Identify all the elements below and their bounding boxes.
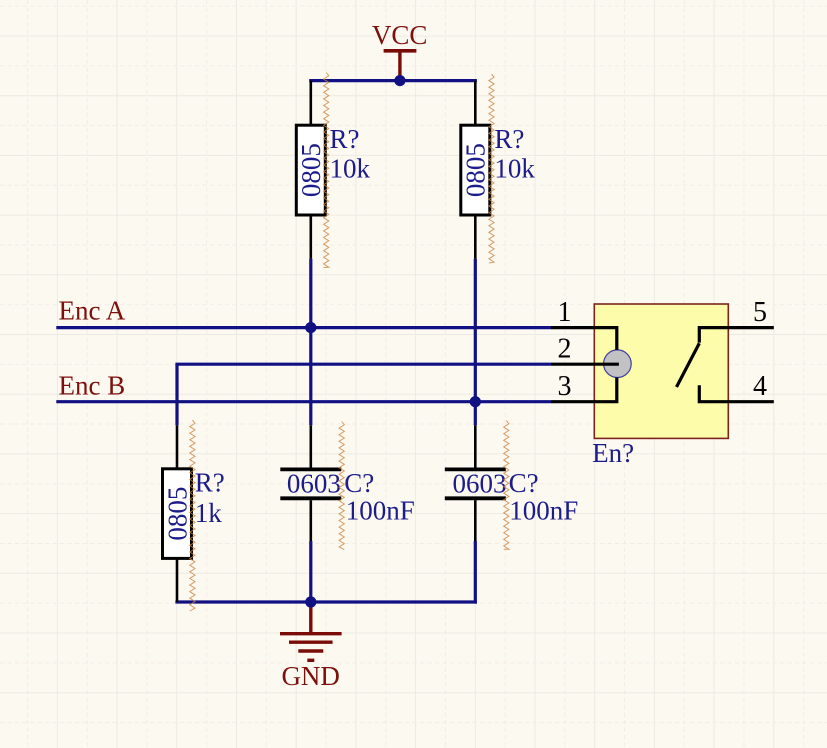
- resistor R2 (R? 10k, right pull-up): [461, 81, 491, 259]
- svg-text:R?: R?: [494, 124, 524, 154]
- svg-text:100nF: 100nF: [346, 495, 415, 525]
- svg-text:0603: 0603: [453, 469, 507, 499]
- wire W11 net Enc B: [56, 400, 551, 403]
- wire W9 encoder pin2 net horizontal: [175, 363, 551, 366]
- svg-text:Enc A: Enc A: [59, 296, 126, 326]
- wire W6 right column Enc B to C2: [474, 402, 477, 426]
- svg-text:4: 4: [753, 371, 767, 402]
- svg-text:1: 1: [558, 297, 572, 328]
- svg-text:GND: GND: [281, 661, 340, 691]
- wire W2 left column R1 to Enc A: [309, 259, 312, 328]
- wire W7 right column C2 to ground rail: [474, 541, 477, 604]
- junction dot ground rail / GND: [305, 596, 316, 607]
- pin 1: [551, 328, 617, 350]
- svg-text:5: 5: [753, 297, 767, 328]
- svg-text:1k: 1k: [195, 498, 223, 528]
- svg-text:0805: 0805: [461, 143, 491, 197]
- wire W3 left column Enc A to C1: [309, 328, 312, 426]
- wire W8 net Enc A: [56, 326, 551, 329]
- svg-text:0603: 0603: [287, 469, 341, 499]
- svg-text:10k: 10k: [494, 154, 535, 184]
- resistor R3 (R? 1k): [162, 425, 192, 602]
- ground symbol: [280, 602, 342, 660]
- junction dot Enc A / left column: [305, 322, 316, 333]
- pin 5: [699, 328, 774, 343]
- junction dot VCC rail: [394, 75, 405, 86]
- capacitor C1 (C? 100nF, left): [280, 425, 341, 541]
- svg-text:R?: R?: [195, 468, 225, 498]
- pin 2: [551, 363, 619, 366]
- svg-text:10k: 10k: [330, 154, 371, 184]
- svg-text:C?: C?: [509, 468, 539, 498]
- svg-text:VCC: VCC: [372, 20, 428, 50]
- error squiggle at C2: [504, 421, 509, 550]
- switch blade: [677, 343, 700, 387]
- error squiggle at R3: [190, 420, 195, 611]
- resistor R1 (R? 10k, left pull-up): [296, 81, 326, 259]
- svg-text:C?: C?: [344, 468, 374, 498]
- wire W10 encoder pin2 net vertical to R3: [175, 364, 178, 425]
- error squiggle at C1: [339, 422, 344, 550]
- error squiggle at R1: [324, 73, 329, 268]
- svg-text:En?: En?: [592, 438, 634, 468]
- wire W12 ground rail: [175, 600, 477, 603]
- wire W4 left column C1 to ground rail: [309, 541, 312, 602]
- svg-text:0805: 0805: [296, 143, 326, 197]
- junction dot Enc B / right column: [470, 396, 481, 407]
- error squiggle at R2: [489, 74, 494, 263]
- capacitor C2 (C? 100nF, right): [445, 425, 506, 541]
- svg-text:Enc B: Enc B: [59, 371, 126, 401]
- svg-text:0805: 0805: [162, 487, 192, 541]
- encoder body (yellow box): [594, 304, 728, 438]
- svg-text:R?: R?: [330, 124, 360, 154]
- svg-text:3: 3: [558, 371, 572, 402]
- svg-text:2: 2: [558, 334, 572, 365]
- svg-text:100nF: 100nF: [509, 495, 578, 525]
- power port VCC symbol: [384, 51, 417, 81]
- wire W1 VCC rail: [309, 79, 477, 82]
- pin 3: [551, 378, 617, 402]
- encoder shaft circle: [604, 350, 632, 378]
- pin 4: [699, 385, 774, 402]
- wire W5 right column R2 to Enc B: [474, 259, 477, 402]
